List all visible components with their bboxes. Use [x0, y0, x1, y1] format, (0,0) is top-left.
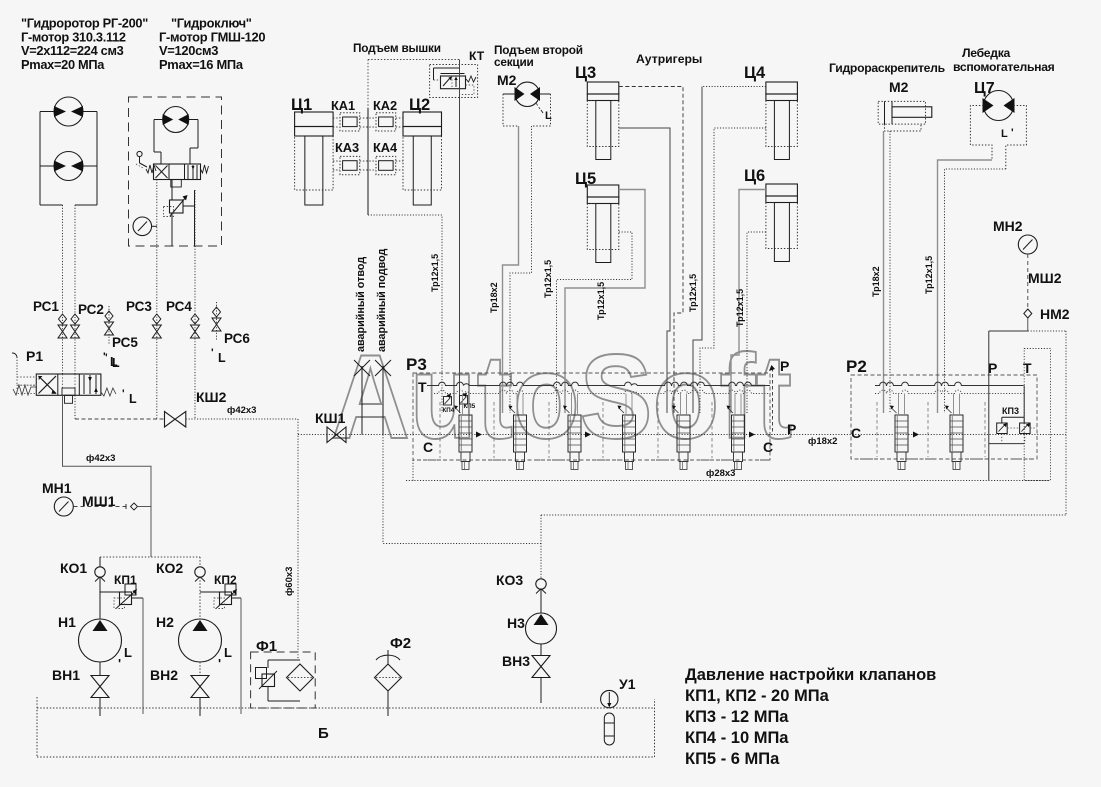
- T channel dotted box: [1024, 349, 1050, 481]
- pipe C4 lower port: [700, 128, 766, 413]
- wire NM2 to block: [1027, 318, 1029, 331]
- svg-text:Ц3: Ц3: [575, 64, 596, 82]
- svg-text:КА3: КА3: [335, 140, 359, 155]
- svg-text:Давление настройки клапанов: Давление настройки клапанов: [685, 666, 936, 684]
- svg-text:РС3: РС3: [126, 299, 152, 314]
- wire riser KO3: [540, 515, 542, 578]
- svg-text:Тр12х1,5: Тр12х1,5: [543, 260, 553, 298]
- svg-text:КП4 - 10 МПа: КП4 - 10 МПа: [685, 729, 789, 747]
- svg-text:РС6: РС6: [224, 331, 250, 346]
- relief valve KP5: [460, 393, 468, 404]
- svg-text:НМ2: НМ2: [1040, 306, 1070, 322]
- svg-text:М2: М2: [497, 72, 517, 88]
- wire suction header dashed: [100, 556, 200, 558]
- svg-text:Тр12х1,5: Тр12х1,5: [924, 256, 934, 294]
- valve P1 directional: [13, 374, 116, 403]
- svg-text:Р2: Р2: [846, 357, 867, 376]
- cylinder C3: [587, 82, 619, 94]
- pipe C5 top port: [565, 190, 645, 414]
- svg-text:V=2x112=224 см3: V=2x112=224 см3: [21, 43, 124, 58]
- svg-text:': ': [1011, 127, 1014, 139]
- pilot port P1 hook: [12, 353, 17, 357]
- text block valve pressure settings: [685, 666, 936, 768]
- pipe C3 lower port: [619, 128, 670, 413]
- coupling PC2: [71, 314, 79, 324]
- wire VN2 to tank: [199, 698, 201, 717]
- filter F1 assembly: [251, 652, 316, 708]
- svg-text:КШ1: КШ1: [315, 410, 346, 426]
- svg-text:КО3: КО3: [496, 572, 523, 588]
- motor M-GMSh: [163, 107, 189, 133]
- svg-text:КА1: КА1: [331, 98, 355, 113]
- brake valve KT: [430, 65, 478, 98]
- svg-text:аварийный отвод: аварийный отвод: [355, 257, 367, 352]
- coupling PC4: [191, 314, 199, 324]
- svg-text:ф42х3: ф42х3: [86, 453, 115, 464]
- cylinder C5: [587, 185, 619, 197]
- valve KA4: [376, 156, 396, 174]
- svg-text:Подъем вышки: Подъем вышки: [353, 41, 441, 55]
- section dividers P2: [855, 402, 1034, 459]
- wire vyshka bracket: [368, 59, 460, 61]
- svg-text:ф42х3: ф42х3: [227, 405, 256, 416]
- relief valve KP3 left: [997, 423, 1008, 434]
- valve KSh2 ball: [165, 412, 186, 428]
- svg-text:Ф2: Ф2: [390, 635, 411, 652]
- svg-text:РС2: РС2: [78, 302, 104, 317]
- valve block P3 outline: [413, 373, 770, 460]
- valve section P3-3: [563, 394, 581, 470]
- arrow C line b: [585, 432, 591, 438]
- svg-text:ВН2: ВН2: [150, 667, 178, 683]
- enclosure Gidroklyuch: [129, 97, 222, 246]
- svg-text:ВН3: ВН3: [502, 653, 530, 669]
- svg-text:ВН1: ВН1: [52, 667, 80, 683]
- pump H2: [179, 619, 222, 662]
- svg-text:Б: Б: [318, 725, 329, 742]
- section dividers P3: [418, 402, 768, 460]
- svg-text:КП1: КП1: [114, 573, 137, 587]
- svg-text:КП3 - 12 МПа: КП3 - 12 МПа: [685, 708, 789, 726]
- wire VN1 to tank: [99, 698, 101, 717]
- svg-text:С: С: [763, 439, 773, 455]
- return line f28x3: [406, 460, 1050, 481]
- relief valve KP3 right: [1020, 423, 1031, 434]
- wire gidroklyuch motor loop: [154, 120, 198, 165]
- svg-text:КА2: КА2: [373, 98, 397, 113]
- cylinder C6: [766, 184, 798, 196]
- wire MN1 dashed link: [74, 506, 130, 508]
- wire return riser x298 to filter: [297, 419, 299, 660]
- block T-return box solid: [989, 331, 1028, 481]
- shutoff valve VN3: [532, 656, 550, 667]
- svg-text:Аутригеры: Аутригеры: [636, 52, 702, 66]
- motor M1b (Gidrorotor bottom): [54, 152, 83, 181]
- coupling PC1: [59, 314, 67, 324]
- wire KO3 to H3: [540, 589, 542, 613]
- wire pump line B x75: [74, 205, 76, 374]
- svg-text:КШ2: КШ2: [196, 389, 227, 405]
- shutoff valve VN1: [91, 676, 109, 687]
- wire KA row1 links: [333, 117, 340, 119]
- wire H3 to VN3: [540, 644, 542, 655]
- relief valve KP4: [444, 394, 452, 405]
- arrow C line P2: [913, 432, 919, 438]
- pipe C6 top port: [731, 190, 766, 414]
- wire KP1 drain x143: [142, 598, 144, 714]
- svg-text:Р: Р: [787, 421, 796, 437]
- tank B outline: [37, 697, 655, 757]
- svg-text:L: L: [545, 110, 552, 122]
- svg-text:РС5: РС5: [112, 335, 138, 350]
- svg-text:': ': [118, 656, 121, 671]
- wire KSh2 to riser: [186, 418, 298, 420]
- svg-text:Ц6: Ц6: [744, 167, 765, 185]
- svg-text:КП5 - 6 МПа: КП5 - 6 МПа: [685, 750, 780, 768]
- svg-text:аварийный подвод: аварийный подвод: [376, 248, 388, 352]
- svg-text:КО1: КО1: [60, 560, 87, 576]
- channel T wavy P2 dotted: [875, 390, 1024, 393]
- wire KP1 branch: [100, 591, 120, 593]
- wire MSh1 to riser: [138, 506, 151, 508]
- coupling PC5: [105, 311, 113, 321]
- svg-text:Тр18х2: Тр18х2: [489, 282, 499, 313]
- svg-text:Pmax=20 МПа: Pmax=20 МПа: [21, 57, 105, 72]
- relief valve gidroklyuch: [164, 180, 195, 247]
- svg-text:V=120см3: V=120см3: [159, 43, 218, 58]
- svg-text:ф18х2: ф18х2: [808, 436, 837, 447]
- svg-text:КА4: КА4: [373, 140, 398, 155]
- channel T wavy P3: [427, 382, 770, 385]
- svg-text:ф60х3: ф60х3: [284, 567, 295, 596]
- wire PC6 stub: [216, 302, 218, 341]
- wire KO1 to pump: [99, 577, 101, 619]
- svg-text:': ': [122, 388, 125, 400]
- svg-text:Ц1: Ц1: [291, 96, 312, 114]
- svg-text:Р1: Р1: [26, 348, 43, 364]
- svg-text:вспомогательная: вспомогательная: [953, 60, 1055, 74]
- wire PC3 line x156.8: [156, 180, 158, 420]
- text block Gidroklyuch: [159, 16, 265, 72]
- valve KA1: [340, 113, 360, 131]
- channel P wavy P3 dotted: [434, 390, 770, 393]
- svg-text:Н1: Н1: [58, 614, 76, 630]
- svg-text:"Гидроключ": "Гидроключ": [171, 16, 252, 31]
- valve KSh1 ball: [327, 427, 346, 443]
- wire KA to block: [368, 215, 442, 413]
- wire VN3 to tank: [540, 678, 542, 704]
- svg-text:Ц7: Ц7: [974, 80, 995, 97]
- svg-text:Pmax=16 МПа: Pmax=16 МПа: [159, 57, 244, 72]
- wire H2 to VN2: [199, 662, 201, 675]
- svg-text:Н2: Н2: [156, 614, 174, 630]
- valve section P2-1: [890, 394, 908, 470]
- wire H1 to VN1: [99, 662, 101, 675]
- valve section P3-2: [509, 394, 527, 470]
- svg-text:С: С: [851, 425, 861, 441]
- svg-text:L: L: [1001, 128, 1008, 140]
- coupling NM2 diamond: [1024, 309, 1032, 318]
- svg-text:КП4: КП4: [443, 407, 455, 414]
- wire KA center line x368: [367, 108, 369, 215]
- svg-text:Р3: Р3: [406, 355, 427, 374]
- svg-text:секции: секции: [494, 55, 534, 69]
- valve section P2-2: [945, 394, 963, 470]
- svg-text:L: L: [218, 351, 226, 365]
- check valve KO1: [99, 557, 101, 567]
- svg-text:КТ: КТ: [469, 49, 485, 63]
- valve R-gidroklyuch directional: [136, 151, 209, 187]
- wire KO2 to pump: [199, 577, 201, 619]
- svg-text:Тр12х1,5: Тр12х1,5: [596, 282, 606, 320]
- coupling PC6: [213, 307, 221, 317]
- valve section P3-4: [618, 394, 636, 470]
- svg-text:ф28х3: ф28х3: [706, 468, 735, 479]
- relief valve KP2: [225, 584, 236, 595]
- gauge MN-gidroklyuch: [133, 217, 157, 236]
- svg-text:Р: Р: [780, 358, 789, 374]
- wire KP2 branch: [200, 591, 220, 593]
- wire KA row2 links: [333, 160, 340, 162]
- svg-text:Тр12х1,5: Тр12х1,5: [735, 289, 745, 327]
- valve block P2 outline: [851, 375, 1037, 459]
- svg-text:Н3: Н3: [507, 615, 525, 631]
- cylinder M2 gidroraskrepitel: [878, 101, 932, 131]
- svg-text:L: L: [124, 645, 132, 660]
- pipe C3 top port: [619, 87, 683, 414]
- svg-text:': ': [211, 347, 214, 359]
- svg-text:У1: У1: [619, 676, 636, 692]
- pipe C5 lower port: [557, 232, 633, 413]
- pipe M2 pair Tr18x2: [503, 126, 532, 413]
- wire T-return y515: [541, 514, 1066, 516]
- svg-text:РС4: РС4: [166, 299, 192, 314]
- wire KT riser x459.5: [459, 60, 461, 414]
- cylinder C1: [295, 112, 334, 127]
- svg-text:"Гидроротор РГ-200": "Гидроротор РГ-200": [21, 16, 148, 31]
- text block Gidrorotor RG-200: [21, 16, 148, 72]
- check valve KO2: [199, 557, 201, 567]
- level indicator U1: [601, 690, 618, 745]
- svg-text:КП3: КП3: [1002, 406, 1019, 416]
- pipe C7 pair Tr12x1.5: [938, 160, 1006, 413]
- arrow C line c: [749, 432, 755, 438]
- wire KP3 links: [1002, 386, 1037, 444]
- svg-text:МН2: МН2: [993, 218, 1023, 234]
- motor M2: [503, 82, 552, 126]
- svg-text:РС1: РС1: [33, 299, 59, 314]
- svg-text:Ц2: Ц2: [409, 96, 430, 114]
- pipe M2r pair Tr18x2: [884, 131, 891, 413]
- port X avariyny otvod: [354, 360, 370, 435]
- wire KP2 drain x241: [240, 598, 242, 714]
- relief valve KP1: [125, 584, 136, 595]
- svg-text:L: L: [112, 356, 120, 370]
- gauge MN2: [1018, 235, 1037, 254]
- pipe C6 lower port: [747, 232, 766, 413]
- wire PC5 stub: [108, 306, 110, 345]
- motor C7 winch: [970, 91, 1026, 170]
- svg-text:КП1, КП2 - 20 МПа: КП1, КП2 - 20 МПа: [685, 687, 830, 705]
- svg-text:Лебедка: Лебедка: [962, 46, 1011, 60]
- wire C-return riser x383: [383, 435, 541, 544]
- svg-text:Т: Т: [418, 379, 427, 395]
- svg-text:Гидрораскрепитель: Гидрораскрепитель: [829, 61, 945, 75]
- wire PC4 line x195: [194, 190, 196, 419]
- wire P1 return to KSh2: [74, 395, 76, 419]
- svg-text:Ц4: Ц4: [744, 64, 766, 82]
- svg-text:С: С: [423, 439, 433, 455]
- svg-text:КП5: КП5: [464, 403, 476, 410]
- port P dashed riser: [772, 368, 774, 435]
- valve KA2: [376, 113, 396, 131]
- wire MN2 dashed: [1027, 254, 1029, 308]
- cylinder C4: [766, 82, 798, 94]
- svg-text:L: L: [129, 392, 137, 406]
- svg-text:Г-мотор 310.3.112: Г-мотор 310.3.112: [21, 29, 126, 44]
- wire pump line A x62.5: [62, 205, 64, 374]
- check valve KO3: [536, 579, 546, 589]
- coupling MSh1 diamond: [131, 503, 138, 510]
- svg-text:Тр12х1,5: Тр12х1,5: [430, 254, 440, 292]
- channel P wavy P2: [875, 382, 1024, 385]
- svg-text:М2: М2: [889, 79, 909, 95]
- wire P1 to pumps junction: [63, 395, 152, 557]
- pump H3: [526, 613, 557, 644]
- cylinder C2: [403, 112, 442, 127]
- coupling PC3: [153, 314, 161, 324]
- filter F2: [375, 650, 402, 716]
- svg-text:Р: Р: [988, 360, 997, 376]
- svg-text:Г-мотор ГМШ-120: Г-мотор ГМШ-120: [159, 29, 265, 44]
- svg-text:': ': [218, 656, 221, 671]
- valve section P3-5: [672, 394, 690, 470]
- svg-text:L: L: [224, 645, 232, 660]
- svg-text:Тр12х1,5: Тр12х1,5: [688, 274, 698, 312]
- svg-text:КП2: КП2: [214, 573, 237, 587]
- svg-text:МШ2: МШ2: [1028, 270, 1062, 286]
- arrow C line a: [476, 432, 482, 438]
- gauge MN1: [54, 497, 73, 516]
- motor M1a (Gidrorotor top): [54, 97, 83, 126]
- valve KA3: [340, 156, 360, 174]
- svg-text:Тр18х2: Тр18х2: [871, 266, 881, 297]
- svg-text:': ': [105, 352, 108, 364]
- wire motor loop: [40, 112, 97, 206]
- svg-text:AutoSoft: AutoSoft: [331, 330, 792, 464]
- valve section P3-1: [454, 394, 472, 470]
- shutoff valve VN2: [191, 676, 209, 687]
- pipe C4 top port: [702, 86, 766, 88]
- main line C y434.5: [298, 434, 1066, 436]
- svg-text:КО2: КО2: [156, 560, 183, 576]
- valve section P3-6: [727, 394, 745, 470]
- port X avariyny podvod: [375, 360, 391, 435]
- pump H1: [79, 619, 122, 662]
- block outer dotted box: [1028, 331, 1066, 515]
- svg-text:МН1: МН1: [42, 480, 72, 496]
